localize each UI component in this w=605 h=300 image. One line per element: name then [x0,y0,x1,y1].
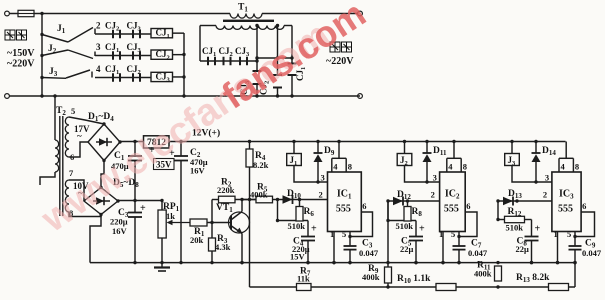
svg-text:5: 5 [342,229,346,239]
svg-text:3: 3 [96,42,101,52]
capacitor C2 [179,140,182,143]
svg-text:555: 555 [336,204,351,215]
input terminal top [5,11,10,16]
capacitor C1 [134,142,136,157]
resistor R2 [219,196,236,203]
diode D11 [393,197,403,205]
relay coil CJ2 [151,50,173,59]
bridge2 neg to bus [90,215,101,263]
svg-text:20k: 20k [190,235,204,245]
wire bottom bus left [10,95,361,97]
svg-text:16V: 16V [190,166,206,176]
contact CJ2 row3 [132,73,134,82]
T2 primary bottom lead [40,172,55,185]
IC 2 555 [440,172,466,232]
svg-text:2: 2 [96,21,101,31]
trigger wire [388,200,440,202]
svg-text:1: 1 [439,229,443,239]
svg-text:6: 6 [362,201,366,211]
svg-text:5: 5 [451,229,455,239]
resistor R5 [256,196,273,203]
capacitor C8 [531,221,533,237]
W2 bottom lead [69,212,101,217]
T1 tap2 vertical with contact CJ2 [276,24,279,27]
output terminal top [358,11,363,16]
resistor R9 [387,201,389,287]
resistor R6 [296,207,303,222]
svg-text:6: 6 [582,201,586,211]
W1 bottom lead to bridge [69,142,88,157]
svg-text:6: 6 [466,201,470,211]
svg-text:1: 1 [330,229,334,239]
T2 secondary W1 winding [65,117,69,157]
svg-text:2: 2 [543,190,547,200]
T1 secondary winding [200,25,216,27]
svg-text:0.047: 0.047 [359,248,379,258]
wire T1 top rail to output [262,13,358,15]
bridge rectifier D1-D4 [88,124,120,161]
pin 1 stub [333,232,335,263]
T1 primary winding [230,14,262,19]
diode D10 [283,195,293,203]
IC 3 555 [552,172,581,232]
capacitor C9 timing [574,237,576,247]
diode D12 [503,197,513,205]
diode D9 [316,140,319,143]
capacitor C4 [307,221,309,237]
resistor R7 [297,284,312,291]
resistor R13 [549,284,569,291]
output terminal bottom [358,94,363,99]
pins 4 8 feed [565,142,567,159]
transistor VT1 [229,212,250,233]
switch J2 [42,50,68,56]
contact CJ3 t1row [239,57,241,66]
contact CJ3 row1 [132,30,134,39]
resistor R4 [248,140,251,143]
potentiometer RP1 [161,201,163,211]
T2 core [59,116,61,216]
svg-text:510k: 510k [396,221,414,231]
svg-text:8: 8 [348,162,352,172]
svg-text:+: + [535,224,541,235]
pin 6 loop [575,212,595,237]
svg-text:22μ: 22μ [400,244,414,254]
wire coil CJ2 to bus [173,54,185,56]
pin 1 stub [557,232,559,263]
contact CJ3 row2 [132,51,134,60]
T1 tap1 vertical with contact CJ3 [255,24,258,27]
relay coil J1 [292,140,295,143]
capacitor C5 [415,221,417,237]
contact row under T1 wire [200,60,257,62]
T2 primary lead [53,94,56,97]
wire coil to pin3 [405,166,440,183]
contact CJ1 t1row [207,57,209,66]
wire R2 drop [211,200,213,223]
T2 secondary W2 winding [65,180,69,212]
bridge1 neg link to bridge2 [101,161,104,188]
svg-text:~220V: ~220V [7,59,35,70]
T2 primary winding [55,140,59,172]
wire bridge1 out to 7812 [120,141,144,143]
svg-text:400k: 400k [362,272,380,282]
svg-text:1k: 1k [166,211,175,221]
wire 12V rail [169,141,566,143]
svg-text:400k: 400k [250,190,268,200]
trigger wire [498,200,552,202]
svg-text:510k: 510k [288,221,306,231]
diode D14 [534,140,537,143]
IC 1 555 [328,172,362,232]
svg-text:4: 4 [448,162,453,172]
capacitor C3 sample [134,201,136,213]
divider lower line [250,286,576,288]
lower line right riser [574,263,576,287]
pin 5 stub [574,232,576,237]
relay coil CJ3 [151,72,173,81]
trigger wire [242,199,328,201]
resistor R10 [436,284,456,291]
label output hanzi [330,42,340,52]
relay coil J2 [403,140,406,143]
svg-text:3: 3 [545,173,549,183]
wire coil to pin3 [294,166,328,183]
capacitor C7 timing [458,237,460,247]
svg-text:3: 3 [321,173,325,183]
row 2 wire [95,55,151,57]
svg-text:11k: 11k [297,274,310,284]
diode D11 [425,140,428,143]
pins 4 8 feed [338,142,340,159]
resistor R12 [505,216,525,222]
relay coil J3 [510,140,513,143]
switch J1 [42,35,68,43]
svg-text:~: ~ [77,131,82,141]
row 1 wire [95,33,151,35]
wire cross link y58 [257,57,292,59]
pin 5 stub [458,232,460,237]
svg-text:22μ: 22μ [516,244,530,254]
contact CJ1 row2 [112,51,114,60]
regulator 7812 [144,136,170,148]
svg-text:4.3k: 4.3k [215,242,231,252]
input bus vertical [41,14,43,97]
svg-text:~150V: ~150V [7,48,35,59]
svg-text:2: 2 [319,190,323,200]
wire top rail to T1 [42,13,230,15]
resistor R1 [190,219,207,226]
pin 5 stub [349,232,351,237]
label input hanzi [5,30,15,40]
pin 1 stub [442,232,444,263]
label 35V boxed [154,159,175,170]
svg-text:4: 4 [96,64,101,74]
contact CJ2 row1 [112,30,114,39]
W1 top lead to bridge [69,117,104,124]
svg-text:0.047: 0.047 [468,248,488,258]
svg-text:8.2k: 8.2k [253,160,269,170]
wire coil CJ1 to bus [173,32,185,34]
svg-text:+: + [419,224,425,235]
W2 top lead [69,180,84,201]
pin 6 loop [350,212,373,237]
pin 6 loop [459,212,477,237]
jog [277,200,279,221]
svg-text:0.047: 0.047 [582,248,602,258]
svg-text:+: + [140,203,146,214]
svg-text:5: 5 [71,106,75,116]
svg-text:16V: 16V [112,226,128,236]
svg-text:8: 8 [463,162,467,172]
capacitor C3 timing [349,237,351,247]
jog [387,201,389,221]
svg-text:220k: 220k [217,185,235,195]
svg-text:555: 555 [558,204,573,215]
wire coil to pin3 [512,166,552,183]
T1 core [223,20,274,22]
svg-text:R10 1.1k: R10 1.1k [397,274,431,285]
T1 secondary left drop [199,26,201,62]
svg-text:4: 4 [333,162,338,172]
input terminal bottom [5,94,10,99]
contact CJ2 t1row [223,57,225,66]
resistor R3 [211,223,213,239]
row 3 wire [95,77,151,79]
relay coil CJ1 [151,29,173,38]
svg-text:2: 2 [431,190,435,200]
switch J3 [42,77,66,80]
divider drop stage1 [248,198,251,201]
svg-text:5: 5 [567,229,571,239]
coil output bus [183,33,185,96]
wire R2 row [212,199,219,201]
svg-text:220μ: 220μ [110,217,128,227]
svg-text:400k: 400k [474,269,492,279]
svg-text:~220V: ~220V [326,56,354,67]
svg-text:510k: 510k [506,223,524,233]
svg-text:1: 1 [554,229,558,239]
svg-text:555: 555 [444,204,459,215]
resistor R8 [404,207,411,222]
wire base [207,222,231,224]
svg-text:R13 8.2k: R13 8.2k [516,273,550,284]
resistor R11 [495,266,502,281]
fuse [10,13,43,15]
pins 4 8 feed [453,142,455,159]
wire bridge2 out [118,200,162,202]
svg-text:+: + [311,224,317,235]
contact CJ1 row3 [112,73,114,82]
T1 right end vertical with contact CJ1 [291,26,293,64]
wire coil CJ3 to bus [173,76,185,78]
svg-text:15V: 15V [290,252,306,262]
svg-text:3: 3 [433,173,437,183]
svg-text:8: 8 [575,162,579,172]
bridge rectifier D5-D8 [84,188,118,215]
ground bus [90,262,575,264]
ground [161,263,163,268]
jog [497,201,499,220]
